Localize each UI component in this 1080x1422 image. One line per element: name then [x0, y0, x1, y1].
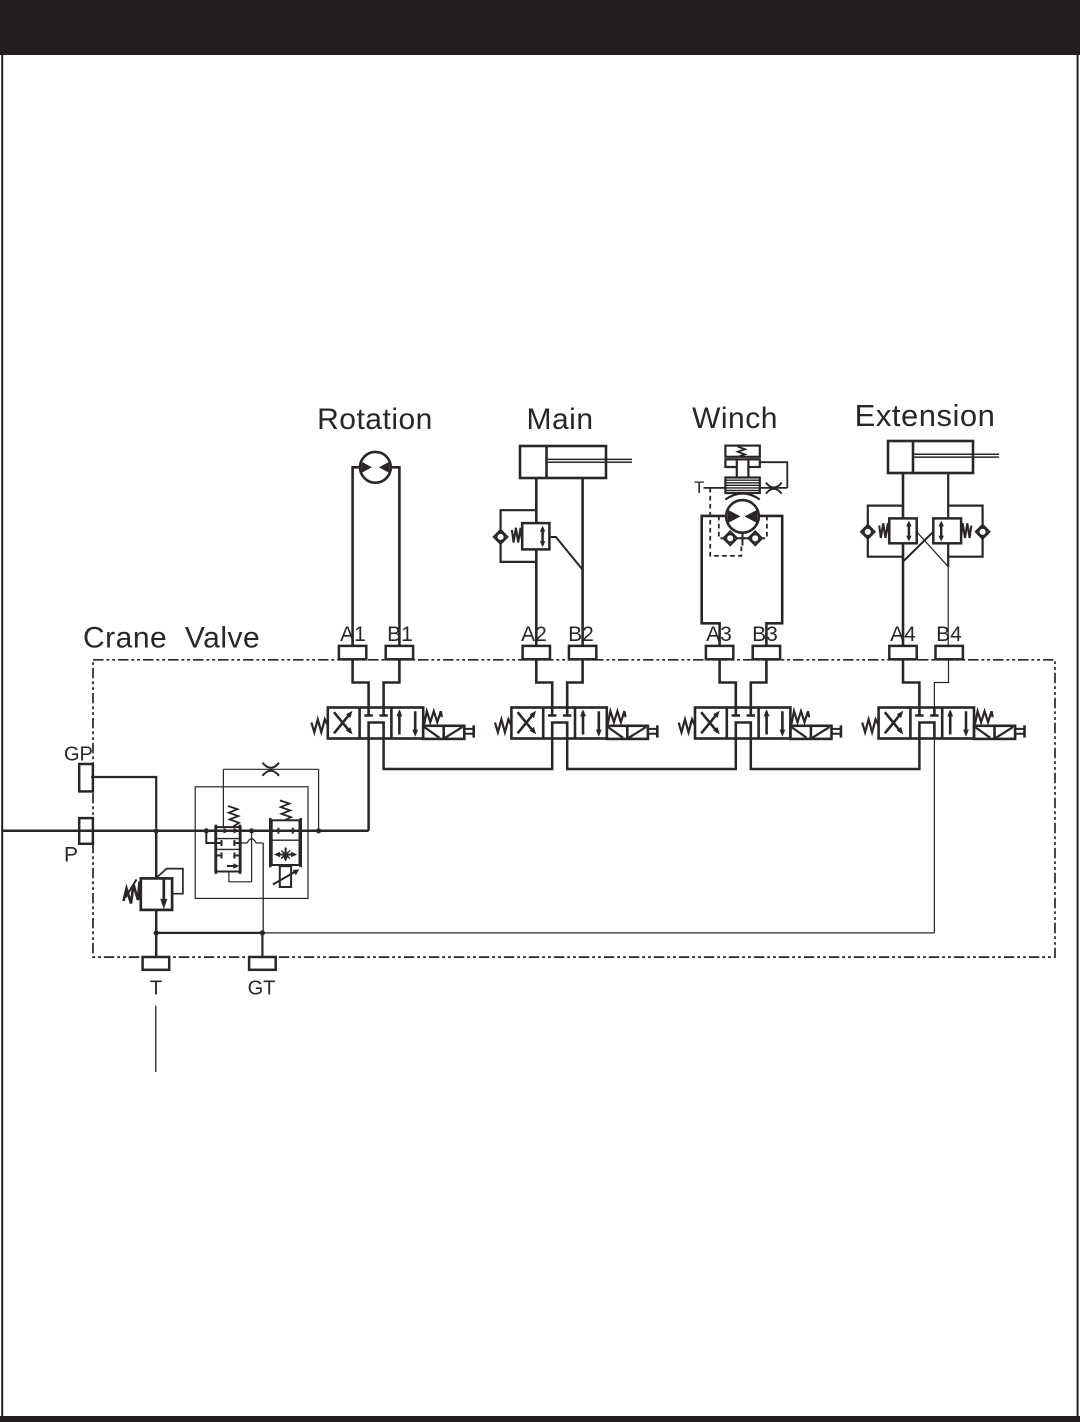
variable throttle under UV2 — [273, 866, 299, 887]
pressure gallery P line — [2, 830, 369, 833]
crossed pilot line to CB3 (thin) — [917, 532, 949, 567]
check valve CV3 — [976, 525, 990, 539]
winch brake actuator (spring applied brake) — [725, 446, 759, 500]
dashed drain line from T to shuttle — [710, 488, 741, 556]
directional valve V4 (extension spool) — [862, 708, 1024, 739]
unloader pilot valve UV2 — [270, 800, 300, 867]
wire: tank gallery to port GT — [261, 933, 263, 957]
winch motor M2 — [726, 500, 759, 533]
extension cylinder C2 — [888, 441, 999, 473]
shuttle check valve right — [748, 531, 762, 545]
counterbalance valve CB3 (extension right) — [933, 518, 971, 543]
wire: relief valve to tank gallery and port T — [155, 910, 158, 957]
rotation motor M1 (bidirectional hydraulic motor) — [360, 452, 391, 483]
unloader pilot valve UV1 — [215, 806, 240, 874]
wire: winch motor right to port B3 — [759, 516, 782, 646]
svg-text:A2: A2 — [521, 623, 547, 646]
orifice (restrictor) on brake line — [766, 483, 782, 494]
port GP (gauge pressure) — [79, 764, 93, 791]
wire: P gallery riser into valve V1 — [367, 739, 370, 831]
port B1 — [386, 646, 413, 659]
svg-text:A1: A1 — [340, 623, 366, 646]
bottom black banner bar — [0, 1416, 1080, 1422]
svg-text:T: T — [150, 978, 162, 1000]
wire: C2 left side down through CB2 to port A4 — [902, 473, 905, 646]
wire: UV1 mid port to tank with crossover hop — [241, 839, 264, 933]
check valve CV1 (main bypass) — [494, 530, 508, 544]
port A4 — [889, 646, 916, 659]
pilot line from CB1 to rod-side work line — [549, 537, 582, 570]
port T — [143, 957, 170, 970]
counterbalance valve CB2 (extension left) — [879, 518, 917, 543]
bypass loop with check around CB2 — [868, 506, 903, 557]
wire: cylinder C1 piston side down to port B2 — [581, 478, 584, 646]
dashed pilot from B line to right shuttle check — [762, 516, 767, 538]
svg-text:B1: B1 — [387, 623, 413, 646]
wire: C2 right side down through CB3 — [947, 473, 949, 567]
crane valve enclosure (chain line boundary) — [93, 660, 1055, 957]
svg-text:A3: A3 — [706, 623, 732, 646]
svg-text:Winch: Winch — [692, 402, 778, 435]
bypass link V2 to V3 — [567, 739, 736, 770]
junction dots on P gallery — [154, 828, 159, 833]
funnel wire port B4 into valve V4 (thin) — [934, 659, 948, 707]
orifice on unloader bypass — [263, 763, 280, 776]
main boom cylinder C1 — [520, 446, 632, 478]
bypass loop with check around CB3 — [948, 506, 982, 557]
funnel wires port A3/B3 into valve V3 — [720, 659, 767, 707]
wire: cylinder C1 rod side down to counterbalance valve — [535, 478, 538, 523]
svg-text:B3: B3 — [752, 623, 778, 646]
crossed pilot line to CB2 — [903, 532, 933, 562]
wire: rotation motor A side down to port A1 — [353, 467, 360, 646]
svg-text:Crane Valve: Crane Valve — [83, 622, 260, 655]
svg-text:A4: A4 — [890, 623, 916, 646]
check valve CV2 — [861, 525, 875, 539]
directional valve V1 (rotation spool) — [311, 708, 473, 739]
wire: winch motor left to port A3 — [702, 516, 727, 646]
tank gallery line — [156, 932, 262, 934]
svg-text:GP: GP — [64, 744, 93, 766]
wire: GP to pressure gallery — [91, 777, 156, 828]
wire: UV1 bottom loop back to P gallery (thin) — [229, 832, 252, 882]
wire: counterbalance valve down to port A2 — [535, 549, 538, 646]
port GT — [249, 957, 276, 970]
directional valve V2 (main spool) — [495, 708, 657, 739]
main relief valve RV1 — [124, 869, 183, 910]
junction dots on tank gallery — [154, 930, 159, 935]
svg-text:Extension: Extension — [855, 398, 996, 433]
port B3 — [753, 646, 780, 659]
port A2 — [523, 646, 550, 659]
brake pilot line with orifice to tank T — [704, 462, 788, 488]
counterbalance valve CB1 (main) — [512, 523, 550, 549]
unloader block enclosure (thin box) — [195, 787, 308, 899]
funnel wires port A2/B2 into valve V2 — [536, 659, 582, 707]
tank gallery line to V4 bypass (thin) — [262, 932, 934, 934]
wire: P gallery down to relief valve — [155, 831, 158, 878]
port A1 — [339, 646, 366, 659]
tank stub line below T — [155, 1006, 157, 1072]
port A3 — [706, 646, 733, 659]
bypass link V3 to V4 — [751, 739, 920, 770]
dashed pilot from A line to left shuttle check — [719, 516, 723, 538]
svg-text:T: T — [694, 478, 704, 497]
svg-text:B2: B2 — [568, 623, 594, 646]
svg-text:Main: Main — [526, 403, 593, 436]
port B2 — [569, 646, 596, 659]
shuttle centre connection under motor — [737, 533, 749, 546]
wire: P gallery into UV1 left port — [206, 831, 215, 843]
spring+check bypass loop around CB1 — [501, 510, 537, 562]
funnel wires port A1/B1 into valve V1 — [353, 659, 400, 707]
directional valve V3 (winch spool) — [679, 708, 841, 739]
left page border line — [1, 55, 3, 1416]
bypass out of V4 down to tank gallery (thin) — [933, 739, 935, 933]
top black banner bar — [0, 0, 1080, 55]
svg-text:B4: B4 — [936, 623, 962, 646]
svg-text:GT: GT — [248, 978, 276, 1000]
svg-text:P: P — [64, 844, 78, 867]
shuttle check valve left — [723, 531, 737, 545]
port B4 — [936, 646, 963, 659]
right page border line — [1077, 55, 1079, 1416]
bypass line with orifice over unloader — [223, 769, 318, 831]
bypass link V1 to V2 — [384, 739, 553, 770]
funnel wire port A4 into valve V4 — [903, 659, 919, 707]
port P (pump inlet) — [79, 818, 93, 844]
wire: rotation motor B side down to port B1 — [391, 467, 400, 646]
wire: CB3 to port B4 (thin) — [947, 567, 949, 646]
svg-text:Rotation: Rotation — [317, 403, 433, 436]
